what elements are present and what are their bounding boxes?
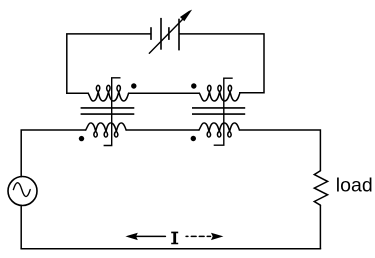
wire from top-left corner to T1 top coil bbox=[67, 92, 88, 94]
phase dot T1 top bbox=[131, 83, 136, 88]
transformer T2 core bbox=[192, 108, 245, 114]
transformer T2 bottom winding bbox=[199, 123, 239, 137]
wire load to bottom rail bbox=[319, 205, 321, 249]
svg-text:load: load bbox=[336, 175, 373, 197]
current arrow left (solid) bbox=[125, 233, 165, 240]
resistor load bbox=[314, 171, 327, 205]
AC source sine symbol bbox=[13, 183, 30, 197]
transformer T1 core bbox=[81, 108, 135, 114]
transformer T2 top winding bbox=[199, 85, 239, 101]
capacitor plate 4 (tall) bbox=[178, 19, 180, 51]
transformer T1 top winding bbox=[88, 85, 128, 101]
phase dot T2 bottom bbox=[191, 136, 196, 141]
capacitor plate 2 (tall) bbox=[160, 18, 162, 50]
wire T2 bottom to load branch bbox=[239, 130, 320, 171]
phase dot T1 bottom bbox=[79, 136, 84, 141]
wire top loop left vertical bbox=[67, 34, 151, 93]
AC source bbox=[8, 177, 37, 206]
wire AC source to bottom rail bbox=[20, 205, 22, 248]
capacitor plate 1 (short) bbox=[150, 27, 152, 40]
T1 center bracket line bbox=[104, 78, 120, 146]
wire T1 bottom to T2 bottom bbox=[126, 129, 199, 131]
variable capacitor arrow bbox=[149, 10, 192, 54]
label I bbox=[171, 232, 178, 245]
wire T1 top to T2 top bbox=[129, 92, 200, 94]
transformer T1 bottom winding bbox=[86, 123, 126, 137]
bottom rail wire bbox=[21, 248, 320, 250]
wire AC source to T1 bottom coil bbox=[21, 130, 86, 177]
T2 center bracket line bbox=[214, 78, 232, 145]
capacitor plate 3 (short) bbox=[168, 27, 170, 40]
phase dot T2 top bbox=[191, 83, 196, 88]
current arrow right (dashed) bbox=[186, 233, 223, 240]
wire top loop right side bbox=[179, 34, 264, 93]
